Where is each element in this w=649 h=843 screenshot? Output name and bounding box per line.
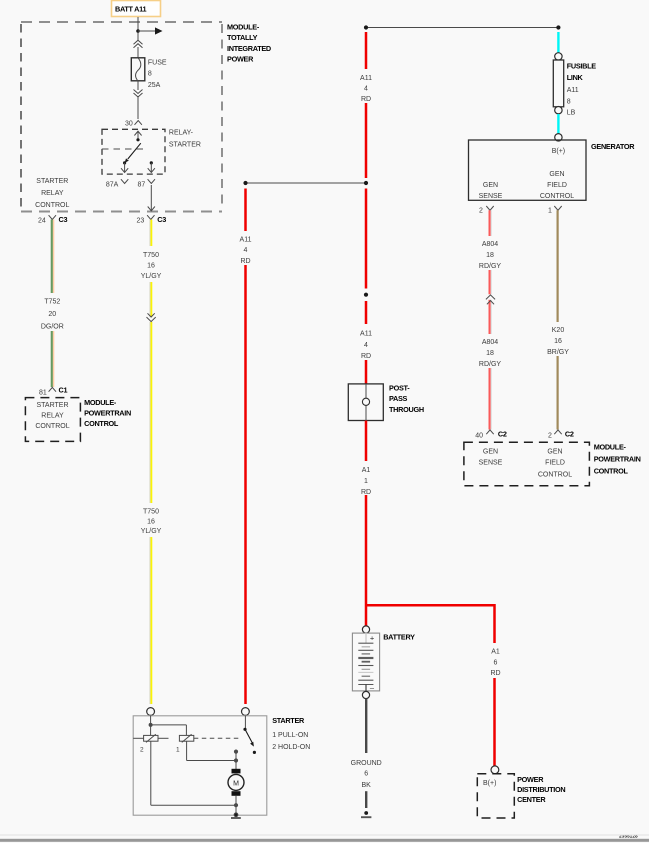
PDC B(+) terminal [491,766,499,774]
wire GROUND 6 BK [365,699,367,753]
cyan wire to generator [557,114,559,134]
starter motor M [228,769,244,796]
module PCM dashed box (GEN SENSE / GEN FIELD CONTROL) [464,442,590,486]
starter terminal (red) [242,708,250,716]
svg-text:4: 4 [364,342,368,349]
svg-text:RELAY-: RELAY- [169,130,194,137]
label FUSE 8 25A [148,60,167,89]
svg-text:A804: A804 [482,241,498,248]
svg-text:FUSE: FUSE [148,60,167,67]
svg-text:CONTROL: CONTROL [594,466,629,475]
svg-text:CONTROL: CONTROL [35,423,69,430]
svg-text:LB: LB [567,109,576,116]
arrow to other circuits [138,27,163,34]
svg-text:C3: C3 [59,215,68,224]
svg-text:MODULE-: MODULE- [594,443,627,452]
svg-text:BATTERY: BATTERY [383,633,415,642]
svg-text:BATT A11: BATT A11 [115,5,146,14]
wire A1 1 RD [365,421,368,627]
pin 2 C2 [548,430,574,440]
pin 30 [125,120,142,127]
wire branch to PDC (A1 6 RD) [366,605,495,766]
svg-text:4: 4 [244,247,248,254]
svg-text:INTEGRATED: INTEGRATED [227,44,271,53]
svg-text:CONTROL: CONTROL [84,419,119,428]
pin 87A [106,179,128,188]
svg-text:CONTROL: CONTROL [35,202,69,209]
svg-text:STARTER: STARTER [36,402,68,409]
wire chevron to fuse [137,47,139,58]
svg-text:GEN: GEN [547,449,562,456]
battery positive terminal [362,626,369,633]
wire A11 4 RD (left branch) [244,189,247,705]
svg-text:RD/GY: RD/GY [479,263,502,270]
wire K20 16 BR/GY [556,210,558,429]
svg-text:6: 6 [494,659,498,666]
svg-text:T752: T752 [44,299,60,306]
svg-text:POWER: POWER [227,55,254,64]
svg-text:16: 16 [554,338,562,345]
svg-text:1: 1 [176,747,180,754]
label K20 16 BR/GY [544,322,572,356]
svg-text:T750: T750 [143,508,159,515]
svg-text:POWER: POWER [517,775,544,784]
relay STARTER dashed box [102,129,165,174]
svg-text:SENSE: SENSE [479,460,503,467]
motor feed node [234,750,237,769]
svg-text:GENERATOR: GENERATOR [591,142,635,151]
svg-text:POST-: POST- [389,383,410,392]
svg-text:THROUGH: THROUGH [389,405,424,414]
svg-text:PASS: PASS [389,394,408,403]
svg-text:18: 18 [486,252,494,259]
wire A804 18 RD/GY [490,210,492,429]
svg-text:A804: A804 [482,339,498,346]
relay contact 87A (down arrow) [121,161,128,172]
svg-text:8: 8 [567,98,571,105]
svg-text:STARTER: STARTER [169,141,201,148]
pin 23 C3 [137,215,167,224]
svg-text:87: 87 [138,182,146,189]
module STARTER RELAY CONTROL (PCM) dashed box [25,398,80,442]
starter switch [243,716,256,754]
ground G100 symbol [361,811,371,817]
svg-text:81: 81 [39,390,47,397]
relay contact arm 30 (up arrow) [134,131,141,141]
cyan wire to fusible link [557,32,559,53]
svg-text:GROUND: GROUND [351,760,382,767]
svg-text:4: 4 [364,85,368,92]
svg-text:T750: T750 [143,252,159,259]
junction dot [136,29,140,33]
splice POST-PASS THROUGH [348,384,383,421]
svg-text:RD/GY: RD/GY [479,361,502,368]
svg-text:B(+): B(+) [552,148,565,155]
label POWER DISTRIBUTION CENTER [517,775,565,804]
svg-text:POWERTRAIN: POWERTRAIN [84,408,131,417]
in-line connector chevrons below fuse [134,81,143,97]
label T752 20 DG/OR [38,293,66,331]
svg-text:BK: BK [362,782,372,789]
relay contact 87 (down arrow) [148,161,155,172]
svg-text:1: 1 [548,208,552,215]
svg-text:C2: C2 [498,430,507,439]
svg-text:87A: 87A [106,182,119,189]
svg-text:RD: RD [361,353,371,360]
pin 24 C3 [38,215,67,224]
svg-text:LINK: LINK [567,73,584,82]
svg-text:2355128: 2355128 [619,833,638,839]
svg-text:BR/GY: BR/GY [547,349,569,356]
svg-text:2: 2 [140,747,144,754]
label POST-PASS THROUGH [389,383,424,414]
svg-text:M: M [233,780,239,787]
svg-text:RD: RD [361,489,371,496]
wire from BATT A11 into TIPM [137,17,139,40]
svg-text:YL/GY: YL/GY [141,273,162,280]
in-line connector on A804 [486,294,495,304]
module TIPM dashed boundary [21,22,222,212]
svg-text:STARTER: STARTER [272,716,305,725]
label GENERATOR [591,142,635,151]
label FUSIBLE LINK A11 8 LB [567,62,597,117]
in-line connector on yellow wire [147,313,156,322]
svg-text:FIELD: FIELD [547,182,567,189]
generator pin 2 [479,206,494,215]
solenoid coil 1 [176,734,194,753]
generator box [469,140,587,200]
starter terminal (yellow) [147,708,155,716]
svg-text:B(+): B(+) [483,780,496,787]
svg-text:RELAY: RELAY [41,190,64,197]
module POWER DISTRIBUTION CENTER dashed box [477,774,514,818]
svg-text:C3: C3 [157,215,166,224]
svg-text:A11: A11 [240,237,252,244]
relay blade [125,143,141,163]
label MODULE-POWERTRAIN CONTROL (left) [84,398,131,428]
net label STARTER RELAY CONTROL (TIPM) [35,178,69,209]
svg-text:POWERTRAIN: POWERTRAIN [594,455,641,464]
wire fuse to relay pin 30 [137,96,139,119]
label A11 4 RD (left) [232,231,259,265]
svg-text:K20: K20 [552,327,565,334]
svg-text:A1: A1 [362,467,371,474]
pin 87 [138,179,156,188]
svg-text:YL/GY: YL/GY [141,528,162,535]
starter ground symbol [231,817,241,819]
svg-text:A11: A11 [567,87,579,94]
svg-text:1 PULL-ON: 1 PULL-ON [272,732,308,739]
label A11 4 RD (center mid) [352,324,380,360]
wire T750 16 YL/GY upper [150,220,151,705]
junction between red wires (gray link) [243,181,368,185]
svg-text:23: 23 [137,218,145,225]
label RELAY-STARTER [169,130,201,149]
label STARTER 1 PULL-ON 2 HOLD-ON [272,716,310,751]
wire 87 to TIPM edge with arrow [148,185,155,211]
wire T752 20 DG/OR [52,220,54,388]
label A804 18 RD/GY (lower) [477,334,504,368]
svg-text:8: 8 [148,71,152,78]
svg-text:1: 1 [364,478,368,485]
svg-text:GEN: GEN [549,171,564,178]
svg-text:A11: A11 [360,331,372,338]
svg-text:TOTALLY: TOTALLY [227,33,258,42]
battery [352,633,379,692]
svg-text:16: 16 [147,518,155,525]
fuse 8 25A [131,58,145,81]
label T750 16 YL/GY (lower) [137,503,165,537]
svg-text:CONTROL: CONTROL [540,193,574,200]
svg-text:2: 2 [479,208,483,215]
fusible link A11 8 LB [553,53,563,114]
coil 2 return [151,741,236,805]
svg-text:25A: 25A [148,82,161,89]
svg-text:40: 40 [475,432,483,439]
svg-text:CONTROL: CONTROL [538,471,572,478]
label A1 6 RD [482,643,509,678]
svg-text:MODULE-: MODULE- [84,398,117,407]
svg-text:24: 24 [38,218,46,225]
wire A11 4 RD (center) [365,32,368,384]
label T750 16 YL/GY (upper) [137,246,165,282]
battery negative terminal [362,691,369,698]
solenoid coil 2 [140,734,158,753]
starter box [133,716,267,815]
svg-text:RD: RD [240,258,250,265]
svg-text:SENSE: SENSE [479,193,503,200]
coil 1 to motor feed [187,741,238,762]
svg-text:STARTER: STARTER [36,178,68,185]
svg-text:16: 16 [147,262,155,269]
generator B(+) terminal [555,134,562,141]
sheet number [619,833,638,839]
svg-text:CENTER: CENTER [517,795,546,804]
label BATTERY [383,633,415,642]
svg-text:30: 30 [125,120,133,127]
label A11 4 RD (center top) [352,69,380,103]
relay divider dashed line [102,148,144,150]
pin 40 C2 [475,430,507,440]
svg-text:6: 6 [364,771,368,778]
label A1 1 RD [353,461,379,496]
svg-text:DG/OR: DG/OR [41,324,64,331]
svg-text:DISTRIBUTION: DISTRIBUTION [517,785,565,794]
svg-text:C2: C2 [565,430,574,439]
svg-text:FUSIBLE: FUSIBLE [567,62,597,71]
svg-text:18: 18 [486,350,494,357]
svg-text:2 HOLD-ON: 2 HOLD-ON [272,744,310,751]
svg-text:MODULE-: MODULE- [227,23,260,32]
label A804 18 RD/GY (upper) [477,236,504,270]
pin 81 C1 [39,386,67,397]
junction dot on center red wire [364,293,368,297]
top bus wire [364,25,561,29]
net label BATT A11 [112,1,161,17]
linkage lines [133,737,241,739]
label MODULE-TOTALLY INTEGRATED POWER [227,23,271,64]
svg-text:C1: C1 [59,386,68,395]
svg-text:RD: RD [490,670,500,677]
in-line connector chevrons above fuse [134,40,143,48]
svg-text:2: 2 [548,432,552,439]
label GROUND 6 BK [351,760,382,789]
svg-text:A11: A11 [360,75,372,82]
page footer bars [0,835,649,842]
svg-text:A1: A1 [491,648,500,655]
motor to ground [234,796,238,817]
generator pin 1 [548,206,562,215]
svg-text:RELAY: RELAY [41,412,64,419]
svg-text:GEN: GEN [483,449,498,456]
starter hold-in coil 2 feed [149,716,186,736]
label MODULE-POWERTRAIN CONTROL (right) [594,443,641,476]
svg-text:RD: RD [361,96,371,103]
svg-text:+: + [370,634,375,643]
ground wire stub [365,791,367,808]
svg-text:FIELD: FIELD [545,460,565,467]
svg-text:20: 20 [48,311,56,318]
svg-text:GEN: GEN [483,182,498,189]
